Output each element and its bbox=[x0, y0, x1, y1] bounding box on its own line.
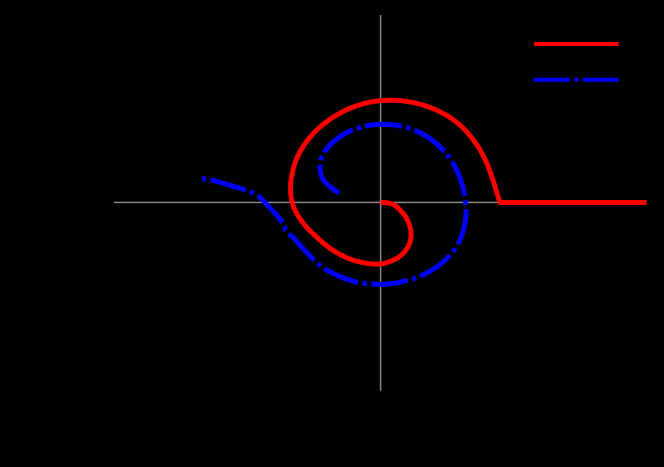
red solid curve bbox=[291, 100, 647, 264]
y axis bbox=[380, 15, 382, 391]
legend blue line bbox=[534, 78, 619, 82]
legend red line bbox=[534, 42, 619, 46]
blue dash-dot curve bbox=[202, 124, 466, 284]
x axis bbox=[114, 201, 647, 203]
